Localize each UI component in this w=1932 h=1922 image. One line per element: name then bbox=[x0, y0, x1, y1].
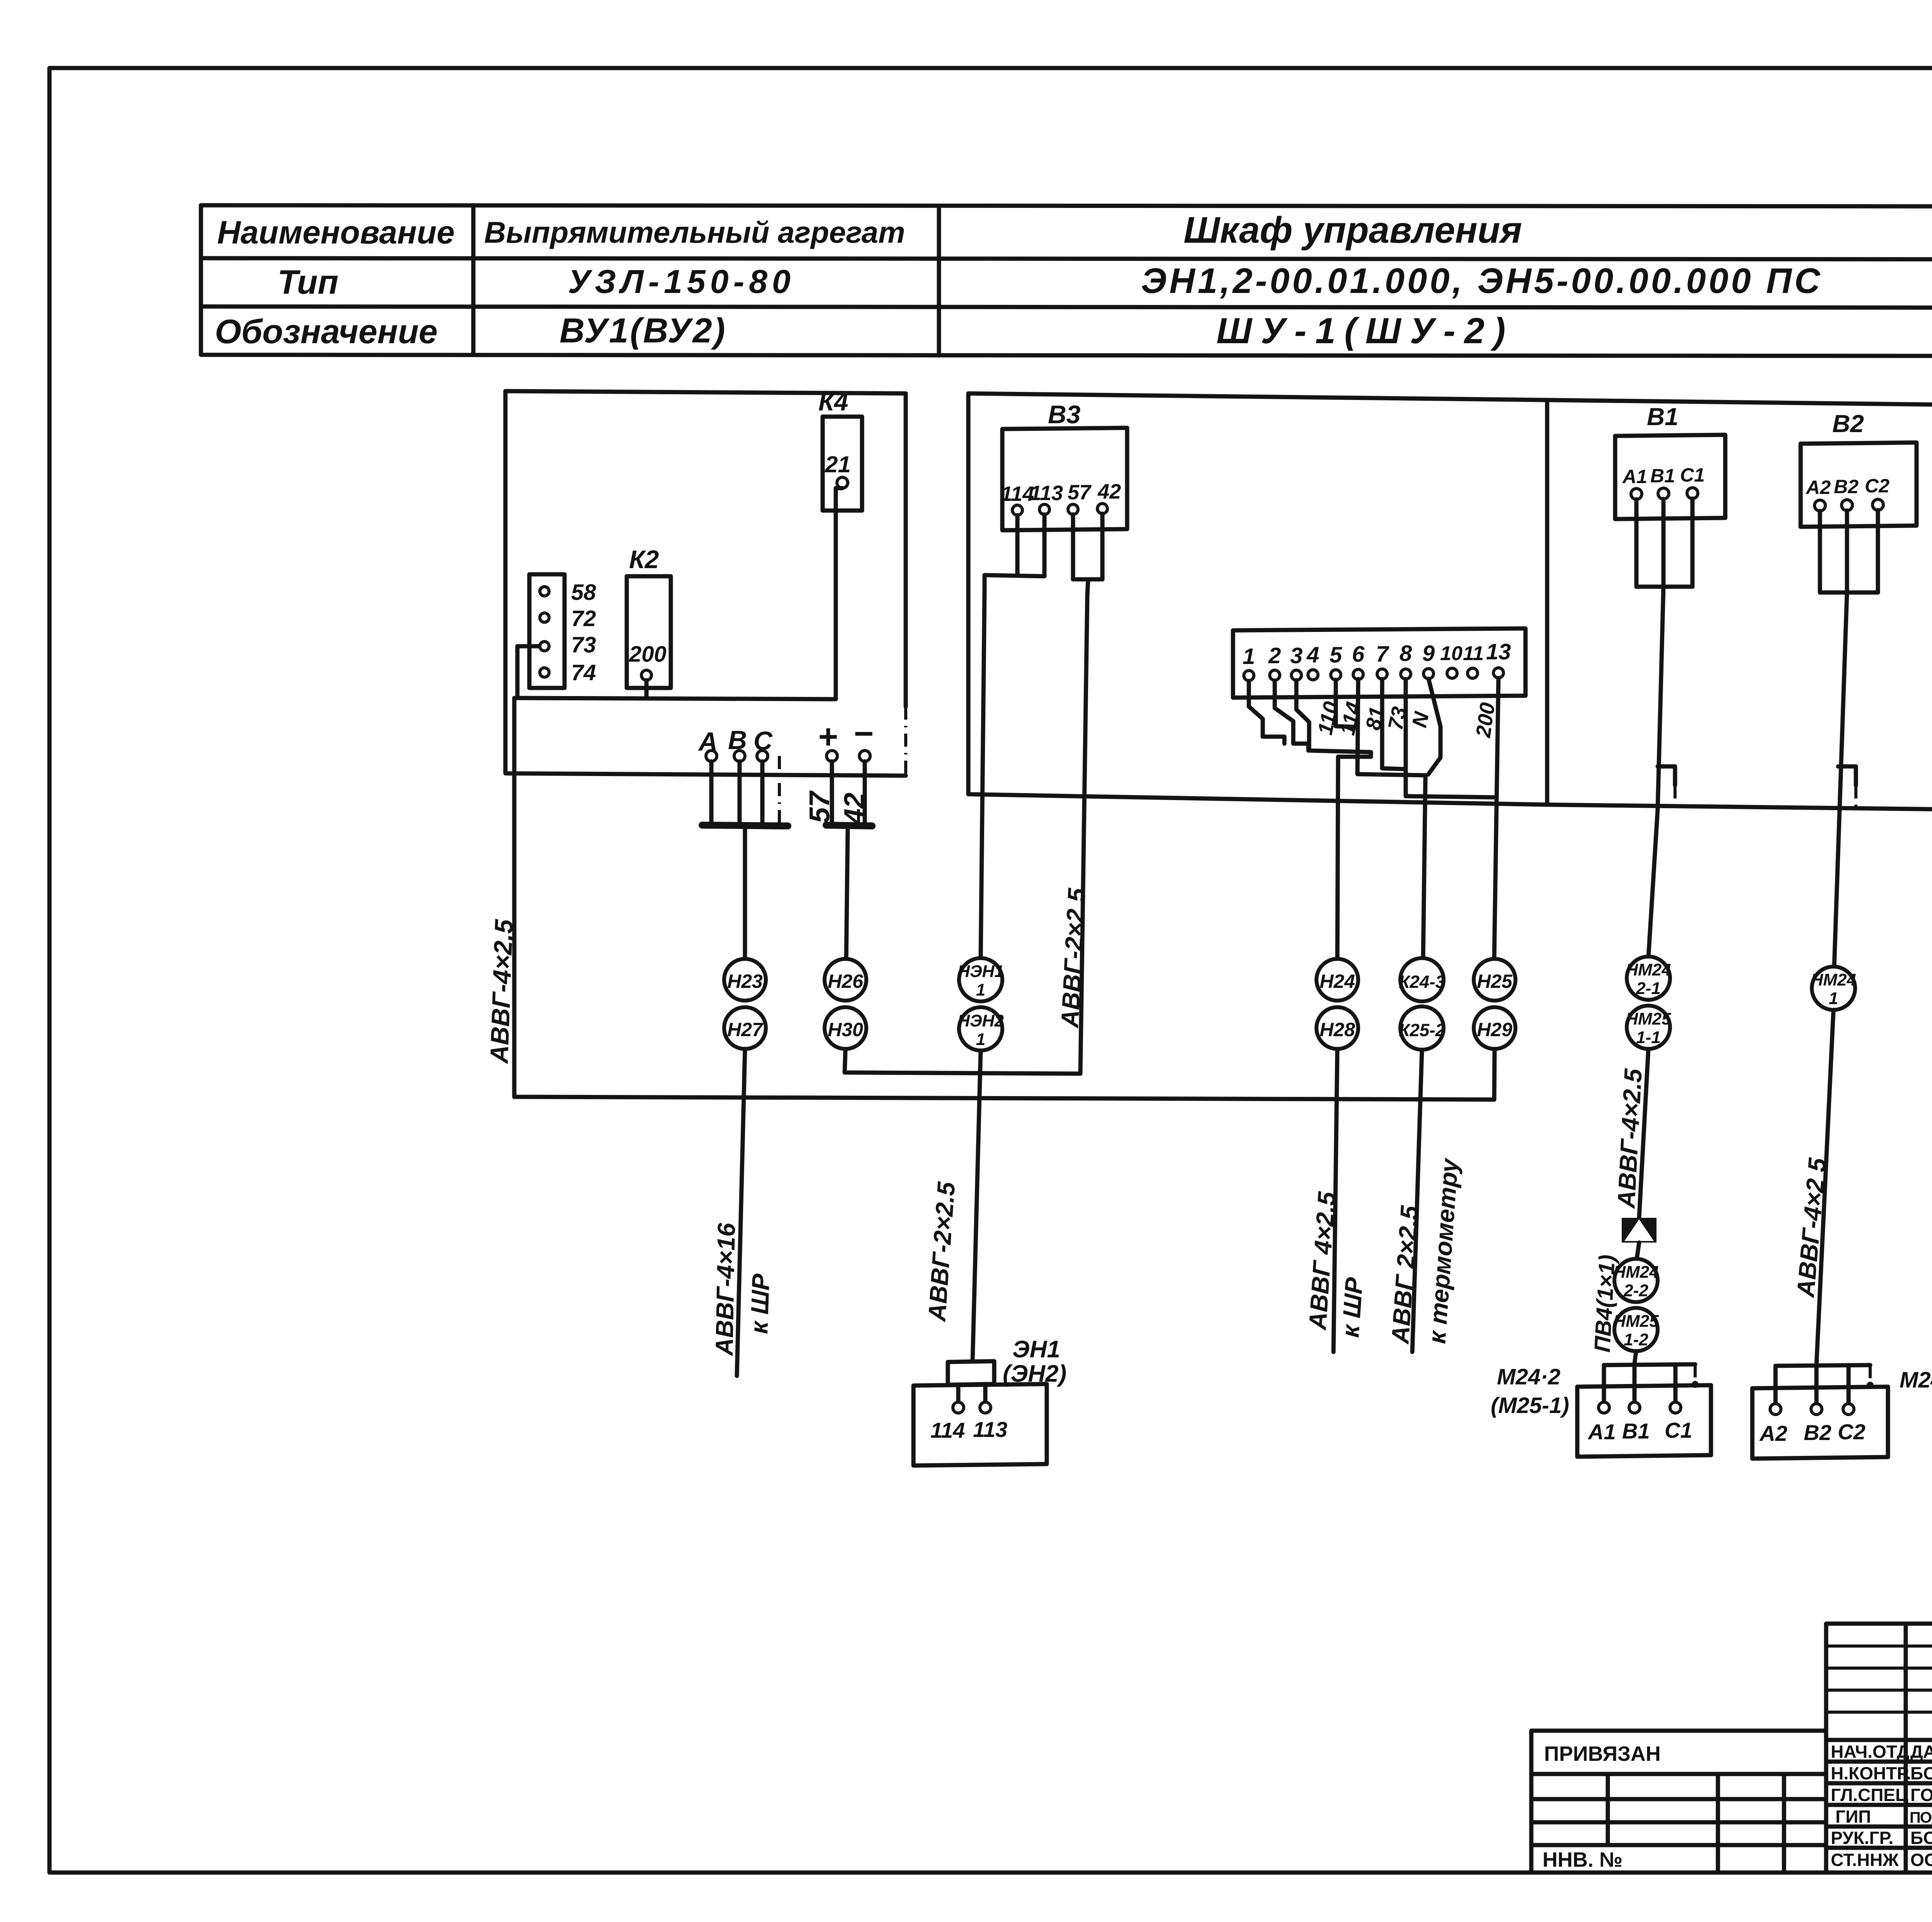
terminal А1 bbox=[1631, 489, 1642, 499]
svg-text:ПВ4(1×1): ПВ4(1×1) bbox=[1590, 1254, 1620, 1353]
wire H30 down and right to 57/42 cable bbox=[845, 1049, 1080, 1074]
svg-text:3: 3 bbox=[1290, 643, 1303, 668]
svg-text:НМ24: НМ24 bbox=[1811, 970, 1856, 989]
wire phase A down bbox=[709, 761, 714, 824]
svg-text:СТ.ННЖ: СТ.ННЖ bbox=[1831, 1850, 1899, 1870]
svg-text:С1: С1 bbox=[1665, 1418, 1692, 1442]
heater terminal 114 bbox=[953, 1402, 964, 1413]
svg-text:21: 21 bbox=[825, 451, 851, 477]
wire from bar to lamp H26 bbox=[846, 826, 848, 959]
wire from strip terminal 5 bbox=[1336, 680, 1357, 727]
fan motor В1 box bbox=[1615, 435, 1725, 519]
wire column to lamp К24-3 bbox=[1423, 775, 1425, 959]
svg-text:АВВГ 2×2.5: АВВГ 2×2.5 bbox=[1386, 1204, 1423, 1345]
terminal strip 1-13 box bbox=[1233, 628, 1526, 698]
wire phase C down bbox=[760, 761, 765, 824]
svg-text:В3: В3 bbox=[1048, 400, 1080, 429]
cable mark Н29 bbox=[1474, 1007, 1515, 1049]
svg-text:ЭН1,2-00.01.000, ЭН5-00.00.00: ЭН1,2-00.01.000, ЭН5-00.00.000 ПС bbox=[1141, 261, 1823, 301]
strip terminal 6 bbox=[1353, 669, 1363, 679]
svg-text:В2: В2 bbox=[1804, 1420, 1832, 1445]
cable mark К25-2 bbox=[1400, 1006, 1444, 1050]
svg-text:6: 6 bbox=[1352, 642, 1365, 667]
svg-text:114: 114 bbox=[930, 1418, 965, 1442]
wire 114 inside heater bbox=[956, 1385, 961, 1402]
svg-text:АВВГ-4×2 5: АВВГ-4×2 5 bbox=[1791, 1156, 1832, 1299]
svg-text:НМ25: НМ25 bbox=[1626, 1010, 1671, 1028]
wire drop А1 bbox=[1602, 1365, 1606, 1402]
strip terminal 3 bbox=[1291, 670, 1301, 680]
wire С2 down bbox=[1876, 510, 1880, 592]
svg-text:РУК.ГР.: РУК.ГР. bbox=[1831, 1828, 1893, 1848]
svg-text:2: 2 bbox=[1268, 643, 1281, 668]
terminal − bbox=[859, 751, 870, 761]
svg-text:ННВ. №: ННВ. № bbox=[1543, 1848, 1622, 1871]
title block outer left part bbox=[1531, 1731, 1826, 1872]
svg-text:58: 58 bbox=[571, 580, 596, 605]
svg-text:Наименование: Наименование bbox=[217, 214, 455, 250]
terminal С1 bbox=[1687, 488, 1698, 499]
svg-text:ГЛ.СПЕЦ: ГЛ.СПЕЦ bbox=[1831, 1785, 1908, 1805]
svg-text:13: 13 bbox=[1486, 639, 1511, 664]
fan motor В2 box bbox=[1801, 443, 1917, 527]
svg-text:42: 42 bbox=[838, 793, 870, 825]
svg-text:ГИП: ГИП bbox=[1835, 1806, 1871, 1827]
terminal 42 bbox=[1097, 504, 1107, 514]
wire staircase collector bbox=[1284, 737, 1371, 757]
svg-text:11: 11 bbox=[1463, 642, 1484, 665]
svg-text:113: 113 bbox=[1030, 482, 1063, 505]
svg-text:АВВГ-4×2.5: АВВГ-4×2.5 bbox=[485, 918, 518, 1064]
svg-text:8: 8 bbox=[1400, 641, 1412, 666]
cable mark Н23 bbox=[724, 959, 766, 1001]
shield dash-dot В1 bbox=[1673, 785, 1677, 810]
svg-text:N: N bbox=[1408, 710, 1434, 730]
heater ЭН1 connector box bbox=[948, 1361, 994, 1385]
rectifier unit ВУ1 enclosure box bbox=[505, 391, 906, 776]
terminal + bbox=[827, 751, 837, 761]
svg-text:2-2: 2-2 bbox=[1623, 1281, 1648, 1300]
svg-text:АВВГ-4×16: АВВГ-4×16 bbox=[710, 1222, 740, 1357]
cable mark НЭН1 bbox=[959, 958, 1002, 1001]
svg-text:В1: В1 bbox=[1647, 403, 1679, 431]
wire plus down bbox=[830, 761, 834, 824]
svg-text:К4: К4 bbox=[818, 387, 848, 416]
wire from terminal 73 to node bus bbox=[517, 646, 539, 698]
svg-text:БОЕВА: БОЕВА bbox=[1910, 1763, 1932, 1783]
heater ЭН1 body box bbox=[913, 1384, 1047, 1466]
wire merge bar В2 bbox=[1820, 591, 1878, 595]
terminal С2 bbox=[1872, 499, 1883, 510]
surge protector diode symbol bbox=[1622, 1218, 1656, 1243]
cable mark Н25 bbox=[1474, 959, 1515, 1001]
shield dash-dot В2 bbox=[1854, 785, 1857, 810]
wire from bar to lamp H23 bbox=[743, 826, 747, 959]
cable bar under АВС bbox=[702, 825, 788, 826]
wire С1 down bbox=[1690, 499, 1695, 587]
wire 114 down bbox=[1015, 515, 1020, 574]
svg-text:ОСИПОВА: ОСИПОВА bbox=[1910, 1850, 1932, 1870]
svg-text:НЭН2: НЭН2 bbox=[957, 1011, 1004, 1030]
wire А1 down bbox=[1634, 499, 1639, 587]
wire from K2 pin 200 down to link bbox=[645, 680, 649, 698]
svg-text:Н26: Н26 bbox=[828, 970, 864, 992]
title block attach columns bbox=[1608, 1774, 1784, 1872]
shield bracket В2 bbox=[1838, 766, 1856, 785]
svg-text:К25-2: К25-2 bbox=[1399, 1020, 1446, 1040]
cable mark НМ24 1 bbox=[1812, 967, 1855, 1010]
svg-text:Н30: Н30 bbox=[828, 1019, 863, 1040]
motor М24-1 top bar bbox=[1776, 1365, 1870, 1366]
svg-text:Обозначение: Обозначение bbox=[215, 312, 437, 351]
svg-text:Тип: Тип bbox=[277, 263, 338, 301]
cable mark Н27 bbox=[724, 1007, 766, 1049]
strip terminal 10 bbox=[1447, 668, 1457, 678]
cable mark НМ25 1-1 bbox=[1627, 1006, 1670, 1049]
svg-text:7: 7 bbox=[1376, 642, 1389, 667]
strip terminal 9 bbox=[1423, 669, 1434, 679]
relay K2 box bbox=[627, 576, 671, 688]
svg-text:ВУ1(ВУ2): ВУ1(ВУ2) bbox=[560, 312, 727, 350]
svg-text:2-1: 2-1 bbox=[1636, 979, 1661, 998]
wire drop С1 bbox=[1673, 1364, 1678, 1402]
terminal В bbox=[734, 751, 745, 761]
wire from strip terminal 13 bbox=[1494, 678, 1498, 959]
svg-text:Шкаф управления: Шкаф управления bbox=[1184, 209, 1522, 251]
svg-text:81: 81 bbox=[1361, 705, 1389, 732]
cable mark НМ25 1-2 bbox=[1614, 1308, 1658, 1351]
cable mark НМ24 2-1 bbox=[1627, 957, 1670, 1000]
svg-text:Н23: Н23 bbox=[727, 970, 763, 992]
wire merge bar В1 bbox=[1636, 585, 1692, 589]
cable mark НЭН2 bbox=[959, 1007, 1002, 1050]
outgoing cable left down bbox=[512, 698, 517, 1097]
wire minus down bbox=[863, 761, 867, 824]
svg-text:А2: А2 bbox=[1759, 1421, 1787, 1445]
shield dash-dot into motor М24-2 bbox=[1694, 1364, 1697, 1382]
wire H27 down to cable end bbox=[737, 1049, 745, 1376]
motor М24-1 box bbox=[1752, 1387, 1888, 1459]
cable bar under +− bbox=[826, 825, 872, 826]
svg-text:С2: С2 bbox=[1865, 475, 1889, 497]
svg-text:ГОЛЬЦМАН: ГОЛЬЦМАН bbox=[1910, 1785, 1932, 1805]
wire К25-2 down to cable end bbox=[1412, 1050, 1422, 1352]
svg-text:Н24: Н24 bbox=[1320, 970, 1355, 992]
cable mark Н26 bbox=[825, 959, 866, 1001]
svg-text:А1: А1 bbox=[1622, 466, 1647, 487]
strip terminal 5 bbox=[1331, 670, 1341, 680]
svg-text:Н25: Н25 bbox=[1477, 970, 1513, 992]
terminal С bbox=[757, 751, 768, 761]
wire from strip terminal 6 bbox=[1357, 679, 1425, 775]
svg-text:Выпрямительный агрегат: Выпрямительный агрегат bbox=[484, 215, 905, 249]
terminal А bbox=[706, 751, 717, 761]
svg-text:к ШР: к ШР bbox=[1336, 1276, 1368, 1338]
svg-text:Н29: Н29 bbox=[1477, 1019, 1512, 1040]
svg-text:ПРИВЯЗАН: ПРИВЯЗАН bbox=[1544, 1742, 1661, 1765]
svg-text:К24-3: К24-3 bbox=[1399, 972, 1446, 992]
motor terminal В1 bbox=[1629, 1402, 1640, 1413]
svg-text:М24·2: М24·2 bbox=[1497, 1364, 1560, 1389]
svg-text:10: 10 bbox=[1440, 642, 1463, 665]
terminal 200 of K2 bbox=[641, 670, 651, 680]
svg-text:Н27: Н27 bbox=[727, 1019, 764, 1040]
wire НЭН2 down to heater connector bbox=[973, 1050, 981, 1361]
strip terminal 11 bbox=[1468, 668, 1478, 678]
svg-text:1: 1 bbox=[976, 981, 985, 999]
table column line 1 bbox=[471, 205, 476, 355]
svg-text:НМ25: НМ25 bbox=[1613, 1312, 1659, 1331]
terminal А2 bbox=[1815, 500, 1825, 511]
svg-text:М24-1: М24-1 bbox=[1900, 1367, 1932, 1393]
svg-text:42: 42 bbox=[1097, 480, 1121, 503]
wire В2 drop bbox=[1815, 1364, 1819, 1404]
terminal В2 bbox=[1842, 500, 1852, 511]
terminal 74 bbox=[540, 668, 549, 677]
wire from strip terminal 3 bbox=[1296, 680, 1309, 751]
terminal В1 bbox=[1658, 488, 1669, 499]
wire А2 down bbox=[1818, 511, 1822, 592]
cable wire down to lamp НЭН1 bbox=[981, 591, 985, 959]
svg-text:С2: С2 bbox=[1838, 1420, 1866, 1444]
svg-text:к ШР: к ШР bbox=[745, 1273, 775, 1334]
svg-text:4: 4 bbox=[1306, 642, 1319, 667]
wire 42 down bbox=[1100, 514, 1105, 579]
svg-text:114: 114 bbox=[1001, 482, 1034, 506]
motor terminal С1 bbox=[1670, 1402, 1681, 1413]
wire drop В1 bbox=[1633, 1365, 1637, 1402]
svg-text:АВВГ-2×2.5: АВВГ-2×2.5 bbox=[923, 1180, 960, 1323]
motor terminal А1 bbox=[1599, 1402, 1609, 1413]
wire 113 inside heater bbox=[983, 1384, 988, 1402]
svg-text:БОЕВА: БОЕВА bbox=[1910, 1828, 1932, 1848]
svg-text:72: 72 bbox=[571, 606, 596, 631]
wire НМ24 1 down to М24-1 bbox=[1816, 1010, 1833, 1364]
wire horizontal link 73 to K4 pin 21 bbox=[517, 488, 842, 699]
svg-text:НЭН1: НЭН1 bbox=[957, 962, 1004, 981]
svg-text:В1: В1 bbox=[1622, 1419, 1650, 1443]
wire НМ25 1-2 down to М24-2 bbox=[1634, 1351, 1636, 1364]
svg-text:1-1: 1-1 bbox=[1636, 1028, 1661, 1047]
strip terminal 13 bbox=[1493, 668, 1503, 678]
staff row lines bbox=[1826, 1740, 1932, 1848]
svg-text:1: 1 bbox=[1243, 644, 1255, 669]
cable mark Н24 bbox=[1316, 959, 1358, 1001]
cable mark К24-3 bbox=[1400, 958, 1444, 1001]
heater terminal 113 bbox=[980, 1402, 991, 1413]
cable В1 down bbox=[1648, 587, 1663, 957]
wire join 57/42 to cable bbox=[1073, 579, 1102, 595]
terminal 21 of K4 bbox=[837, 477, 848, 488]
wire from strip terminal 2 bbox=[1275, 681, 1308, 744]
wire phase B down bbox=[738, 761, 742, 824]
motor terminal А2 bbox=[1770, 1404, 1781, 1415]
wire В1 down bbox=[1662, 499, 1666, 587]
svg-text:73: 73 bbox=[571, 632, 596, 657]
svg-text:К2: К2 bbox=[629, 545, 659, 574]
table column line 2 bbox=[937, 206, 941, 356]
device В3 terminal box bbox=[1002, 428, 1127, 530]
svg-text:ЭН1: ЭН1 bbox=[1012, 1336, 1060, 1363]
wire from strip terminal 7 bbox=[1382, 679, 1406, 769]
svg-text:С1: С1 bbox=[1680, 464, 1705, 486]
svg-text:5: 5 bbox=[1330, 642, 1342, 667]
terminal 73 bbox=[540, 642, 549, 651]
neutral dash-dot lead bbox=[778, 756, 781, 824]
table row line 2 bbox=[201, 306, 1932, 308]
motor М24-2 box bbox=[1577, 1385, 1711, 1457]
cable mark Н30 bbox=[825, 1007, 866, 1049]
svg-text:УЗЛ-150-80: УЗЛ-150-80 bbox=[568, 263, 795, 300]
strip terminal 8 bbox=[1401, 669, 1411, 679]
svg-text:к термометру: к термометру bbox=[1423, 1156, 1464, 1345]
table row line 1 bbox=[201, 258, 1932, 259]
wire from strip terminal 9 bbox=[1428, 679, 1440, 775]
shield bracket В1 bbox=[1658, 766, 1675, 785]
svg-text:А1: А1 bbox=[1587, 1420, 1616, 1444]
svg-text:В1: В1 bbox=[1650, 465, 1675, 487]
bus wire to left cable bbox=[514, 1097, 1494, 1100]
control cabinet ШУ enclosure box (left part В3) bbox=[968, 393, 1932, 810]
cable mark НМ24 2-2 bbox=[1614, 1259, 1658, 1302]
terminal 57 bbox=[1068, 504, 1078, 514]
enclosure right edge dash-dot portion bbox=[904, 706, 907, 776]
svg-text:НАЧ.ОТД: НАЧ.ОТД bbox=[1831, 1742, 1910, 1762]
title block staff grid bbox=[1826, 1624, 1932, 1872]
svg-text:ПОСТНИКОВА: ПОСТНИКОВА bbox=[1910, 1809, 1932, 1826]
strip terminal 7 bbox=[1377, 669, 1387, 679]
svg-text:57: 57 bbox=[803, 790, 835, 823]
svg-text:АВВГ-2×2 5: АВВГ-2×2 5 bbox=[1056, 887, 1091, 1029]
svg-text:НМ24: НМ24 bbox=[1626, 960, 1671, 979]
terminal 113 bbox=[1039, 504, 1049, 514]
wire join 114/113 to cable bbox=[985, 575, 1044, 591]
wire H28 down to cable end bbox=[1333, 1049, 1337, 1352]
svg-text:ШУ-1(ШУ-2): ШУ-1(ШУ-2) bbox=[1216, 310, 1514, 351]
svg-text:−: − bbox=[853, 714, 873, 752]
strip terminal 2 bbox=[1270, 670, 1280, 680]
svg-text:(М25-1): (М25-1) bbox=[1491, 1393, 1569, 1418]
svg-text:200: 200 bbox=[629, 642, 667, 667]
wire column to lamp Н24 bbox=[1337, 757, 1338, 959]
terminal 114 bbox=[1012, 505, 1022, 515]
svg-text:1: 1 bbox=[1829, 989, 1838, 1008]
svg-text:НМ24: НМ24 bbox=[1613, 1263, 1658, 1282]
terminal 72 bbox=[540, 613, 549, 622]
revision thin rows bbox=[1826, 1646, 1932, 1712]
svg-text:В2: В2 bbox=[1834, 476, 1859, 497]
svg-text:А2: А2 bbox=[1805, 477, 1831, 498]
motor terminal С2 bbox=[1843, 1404, 1854, 1415]
svg-text:57: 57 bbox=[1068, 481, 1092, 504]
wire В2 down bbox=[1845, 511, 1849, 592]
cable В2 down bbox=[1833, 592, 1847, 988]
wire drop С2 bbox=[1847, 1365, 1851, 1404]
motor М24-2 top bar bbox=[1604, 1364, 1695, 1365]
relay K4 box bbox=[823, 417, 862, 511]
shield dash-dot into motor М24-1 bbox=[1869, 1365, 1872, 1383]
equipment table frame bbox=[201, 205, 1932, 356]
svg-text:200: 200 bbox=[1471, 701, 1499, 739]
svg-text:Н.КОНТР.: Н.КОНТР. bbox=[1831, 1763, 1911, 1783]
svg-text:1-2: 1-2 bbox=[1624, 1330, 1648, 1349]
wire diode to НМ24 2-2 bbox=[1637, 1243, 1639, 1259]
svg-text:73: 73 bbox=[1384, 705, 1411, 732]
wire H29 down to bus corner bbox=[1494, 1049, 1495, 1100]
terminal strip 58-74 box bbox=[529, 574, 565, 688]
svg-text:ДАННЛОВ: ДАННЛОВ bbox=[1910, 1742, 1932, 1762]
svg-text:9: 9 bbox=[1422, 641, 1435, 666]
wire from strip terminal 8 bbox=[1406, 679, 1494, 797]
cable mark Н28 bbox=[1316, 1007, 1358, 1049]
svg-text:(ЭН2): (ЭН2) bbox=[1003, 1360, 1066, 1387]
svg-text:Н28: Н28 bbox=[1320, 1019, 1355, 1040]
strip terminal 1 bbox=[1244, 671, 1254, 681]
wire 57 down bbox=[1071, 514, 1075, 579]
svg-text:1: 1 bbox=[976, 1030, 985, 1049]
svg-text:113: 113 bbox=[973, 1417, 1007, 1442]
wire drop А2 bbox=[1774, 1366, 1778, 1404]
svg-text:В2: В2 bbox=[1832, 410, 1864, 438]
svg-text:74: 74 bbox=[571, 660, 596, 685]
wire from strip terminal 1 bbox=[1249, 681, 1284, 737]
strip terminal 4 bbox=[1308, 670, 1318, 680]
wire НМ25 1-1 down to diode bbox=[1639, 1049, 1648, 1218]
wire 113 down bbox=[1043, 514, 1047, 576]
motor terminal В2 bbox=[1811, 1404, 1822, 1415]
divider between В3 part and В1/В2 part bbox=[1545, 400, 1549, 805]
cable wire 57/42 down bbox=[1080, 595, 1087, 1073]
terminal 58 bbox=[540, 587, 549, 596]
